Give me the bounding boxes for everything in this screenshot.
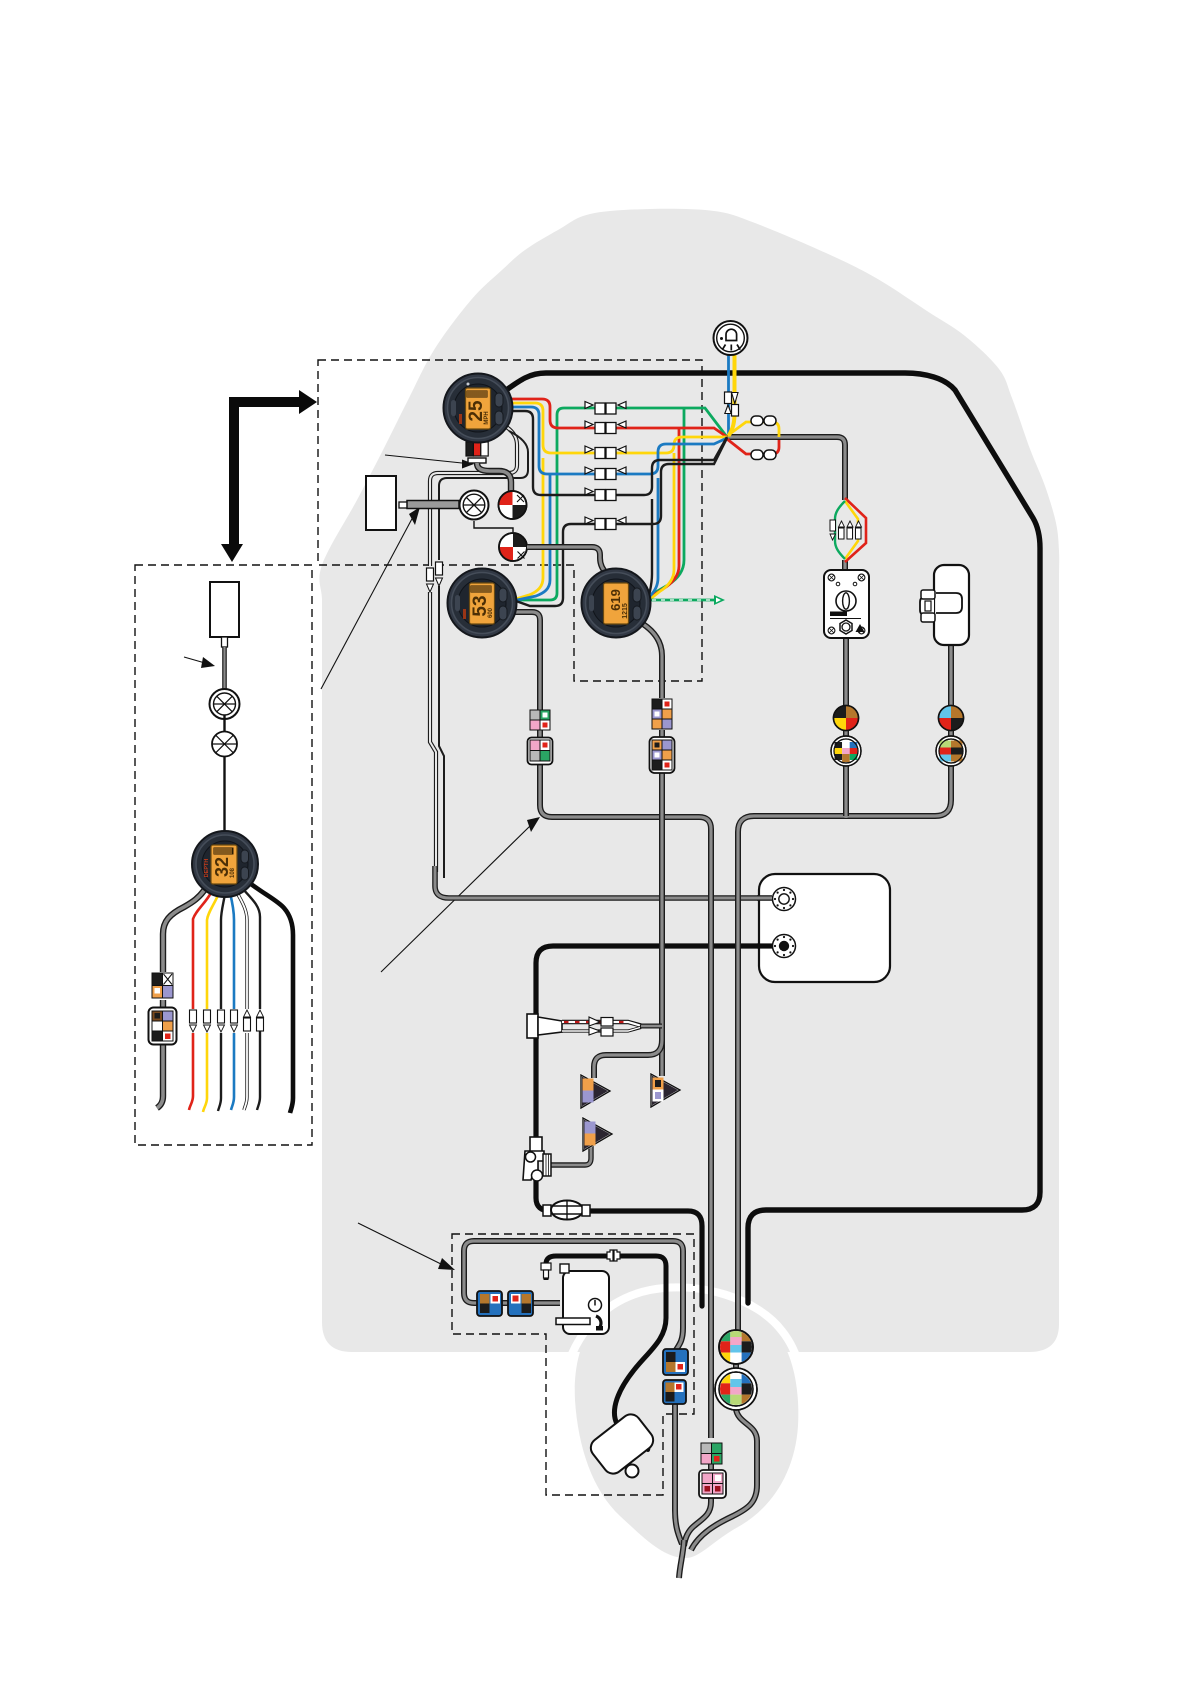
multifunction gauge harness thick gray — [163, 886, 207, 972]
speed sensor triangle connector — [651, 1074, 680, 1107]
detail magnifier arrowhead right — [299, 390, 317, 414]
multifunction harness connector upper — [152, 973, 173, 998]
battery positive stub wire — [757, 895, 772, 901]
oil tank side fitting — [541, 1263, 551, 1278]
svg-text:32: 32 — [212, 857, 232, 877]
paddle wheel connector wire to tachometer — [527, 547, 607, 574]
key harness round connector — [834, 706, 859, 731]
gps antenna module — [210, 582, 239, 637]
oil feed hose from tank to trim pump — [546, 1256, 666, 1442]
blue wire speedometer to junction — [507, 407, 727, 474]
detail magnifier arrowhead down — [221, 544, 243, 562]
speedometer pigtail connector symbol — [499, 491, 527, 519]
dashed left detail box — [135, 565, 312, 1145]
leader line to harness connector — [385, 455, 462, 463]
black branch to tachometer — [649, 499, 652, 604]
horn bullet pair lower — [751, 450, 776, 460]
inline bullet connector black return circuit — [585, 517, 626, 530]
yellow wire speedometer to junction — [507, 403, 727, 453]
water pressure sensor wire — [550, 1144, 591, 1165]
water pressure triangle connector — [583, 1118, 612, 1151]
multifunction gauge power black lead — [247, 881, 293, 1113]
multifunction gauge blue wire — [230, 893, 234, 1110]
oil tank assembly — [556, 1264, 609, 1334]
speedometer gauge — [444, 374, 513, 443]
svg-text:619: 619 — [608, 589, 623, 611]
tachometer connector upper — [652, 699, 672, 729]
hose end fitting at trim pump — [644, 1442, 649, 1450]
dashed fuel/oil detail box — [452, 1234, 694, 1495]
oil pump connector lower — [663, 1380, 686, 1404]
black wire speedometer to junction — [507, 411, 727, 495]
tachometer gauge — [582, 569, 651, 638]
horn bullet pair upper — [751, 416, 776, 426]
fuel sender striped leads — [562, 1017, 641, 1036]
trim gauge connector upper — [530, 710, 550, 730]
svg-text:MPH: MPH — [484, 411, 490, 424]
red wire speedometer to junction — [508, 399, 727, 437]
antenna stem — [222, 637, 228, 690]
dashed helm detail box — [318, 360, 702, 681]
leader line to fuel detail box — [358, 1223, 445, 1266]
lanyard stop switch — [920, 565, 969, 645]
engine harness round connector — [719, 1330, 753, 1364]
key switch and lanyard harness to engine — [738, 766, 951, 1330]
key switch wire stub — [843, 766, 849, 816]
main harness from trim gauge down and to engine — [508, 612, 711, 1438]
black return wire trim gauge to junction — [516, 438, 727, 606]
multifunction gauge second black wire — [242, 888, 260, 1110]
merged engine bundle tail — [679, 1540, 684, 1578]
antenna inline connector circle upper — [210, 689, 240, 719]
oil tank harness loop in fuel box — [464, 1241, 683, 1350]
green branch to tachometer — [649, 408, 684, 596]
speedometer pickup block — [366, 476, 396, 530]
horn red loop wire — [727, 439, 779, 454]
inline bullet connector green circuit — [585, 402, 626, 415]
trim gauge connector lower — [528, 738, 553, 765]
gray feed wire to battery positive — [435, 866, 772, 898]
navigation light yellow wire — [729, 354, 735, 436]
yellow branch to trim gauge — [516, 458, 543, 599]
oil pump harness down to engine — [675, 1404, 682, 1544]
leader line to antenna stem — [184, 657, 205, 663]
detail magnifier arrow horizontal bar — [229, 397, 300, 407]
navigation light fuse pair — [725, 392, 739, 416]
multifunction gauge red wire — [189, 891, 212, 1110]
oil hose inline fitting — [607, 1250, 620, 1261]
engine harness ringed round connector — [715, 1368, 757, 1410]
green data wire trim gauge to junction — [515, 408, 727, 600]
svg-text:600: 600 — [488, 607, 494, 618]
engine pod — [575, 1291, 799, 1558]
navigation light blue wire — [727, 354, 730, 434]
tachometer harness down to engine connector — [643, 624, 662, 698]
navigation light symbol — [714, 321, 748, 355]
power trim pump — [587, 1410, 657, 1477]
inline bullet connector red circuit — [585, 421, 626, 434]
engine connector pink square — [699, 1470, 726, 1498]
thick fuel line battery to primer bulb to engine — [536, 946, 774, 1306]
link bracket between sensor connectors — [474, 521, 513, 532]
battery box — [759, 874, 890, 982]
multifunction wire terminals row — [190, 1010, 264, 1032]
multifunction gauge white wire — [236, 891, 247, 1110]
multifunction gauge black wire — [218, 894, 225, 1111]
water separating fuel filter — [523, 1137, 551, 1181]
ignition key switch panel — [824, 570, 869, 638]
leader line to main harness — [381, 826, 530, 972]
svg-text:108: 108 — [230, 867, 236, 878]
white separation band around pod top — [560, 1287, 806, 1416]
harness segment between engine connectors — [684, 1464, 711, 1546]
detail magnifier arrow vertical bar — [229, 397, 239, 545]
fuel primer bulb — [543, 1201, 590, 1220]
multifunction gauge yellow wire — [203, 893, 219, 1112]
svg-text:DEPTH: DEPTH — [204, 859, 210, 878]
inline bullet connector yellow circuit — [585, 446, 626, 459]
oil tank connector B — [508, 1291, 533, 1316]
inline bullet connector black circuit — [585, 488, 616, 501]
lanyard ringed round connector — [936, 736, 966, 766]
blue branch to trim gauge — [517, 474, 550, 600]
battery negative stub wire — [757, 943, 772, 948]
key switch lower wire — [843, 636, 849, 738]
harness connector below speedometer — [466, 442, 488, 463]
blue branch to tachometer — [649, 478, 658, 602]
harness fuse diamond on ignition feed — [830, 498, 866, 562]
paddle wheel pigtail connector symbol — [499, 533, 527, 561]
yellow branch to tachometer — [649, 453, 674, 600]
tachometer connector lower — [650, 737, 675, 773]
harness below round connectors in pod — [691, 1364, 757, 1550]
antenna inline connector circle lower — [212, 715, 237, 832]
fuel tank quick connect fitting — [527, 1014, 562, 1038]
lanyard round connector — [939, 706, 964, 731]
thick battery cable dash to engine — [505, 373, 1040, 1303]
junction gray main harness to ignition — [727, 437, 845, 572]
engine connector small square — [701, 1443, 722, 1464]
oil pump connector upper — [663, 1349, 688, 1375]
multifunction harness connector lower — [149, 1008, 177, 1045]
svg-text:1215: 1215 — [622, 603, 629, 619]
horn yellow loop wire — [727, 422, 779, 437]
oil tank connector A — [477, 1291, 502, 1316]
accessory fuse pair on white wire — [427, 562, 443, 592]
boat hull — [319, 209, 1059, 1352]
paddle wheel sensor symbol — [460, 491, 489, 520]
key harness ringed round connector — [831, 736, 861, 766]
lanyard switch lower wire — [948, 642, 954, 738]
trim sensor triangle connector — [581, 1075, 610, 1108]
fuel sender link wire — [640, 1024, 662, 1029]
trim gauge — [448, 569, 517, 638]
accessory signal green arrow from tachometer — [648, 595, 725, 605]
white accessory wire from speedometer — [430, 426, 517, 872]
pitot tube — [399, 501, 459, 509]
leader line to pitot tube — [321, 515, 414, 689]
inline bullet connector blue circuit — [585, 467, 626, 480]
branch to fuel pump sensor connector — [594, 1040, 662, 1078]
red branch to tachometer — [649, 428, 679, 598]
black accessory wire from speedometer — [439, 431, 528, 560]
multifunction gauge — [192, 831, 258, 897]
pigtail from harness connector — [477, 463, 511, 491]
